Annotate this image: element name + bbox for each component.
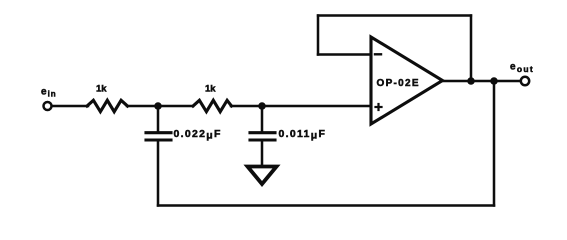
wire R2 to op-amp noninverting input bbox=[231, 105, 371, 108]
svg-text:OP-02E: OP-02E bbox=[377, 78, 420, 89]
wire node A to capacitor C1 bbox=[157, 106, 160, 132]
wire C2 to ground bbox=[261, 140, 264, 166]
svg-text:0.011μF: 0.011μF bbox=[279, 128, 327, 142]
node D junction dot (output tap) bbox=[490, 77, 498, 85]
svg-text:eout: eout bbox=[510, 62, 534, 75]
op-amp U1 bbox=[371, 37, 443, 124]
wire inverting input bbox=[318, 53, 371, 56]
node C junction dot (feedback tap) bbox=[467, 77, 475, 85]
wire output down right side bbox=[493, 81, 496, 206]
wire input to R1 bbox=[52, 105, 88, 108]
wire R1 to R2 bbox=[127, 105, 193, 108]
input terminal e_in bbox=[44, 102, 52, 110]
wire feedback left vertical bbox=[317, 16, 320, 55]
wire feedback right vertical bbox=[470, 16, 473, 82]
resistor R2 bbox=[193, 100, 232, 111]
pin + (noninverting input marker) bbox=[376, 104, 382, 110]
wire feedback top horizontal bbox=[318, 14, 471, 16]
wire node B to capacitor C2 bbox=[261, 106, 264, 132]
svg-text:ein: ein bbox=[41, 87, 57, 99]
node B junction dot bbox=[258, 102, 266, 110]
svg-text:1k: 1k bbox=[205, 84, 216, 95]
pin - (inverting input marker) bbox=[375, 53, 381, 55]
capacitor C2 bbox=[250, 133, 275, 140]
capacitor C1 bbox=[146, 133, 171, 140]
wire op-amp output bbox=[442, 80, 521, 83]
wire bottom feedback horizontal bbox=[158, 204, 494, 207]
output terminal e_out bbox=[521, 77, 529, 85]
node A junction dot bbox=[154, 102, 162, 110]
svg-text:1k: 1k bbox=[96, 84, 107, 95]
resistor R1 bbox=[87, 100, 128, 111]
svg-text:0.022μF: 0.022μF bbox=[174, 128, 222, 142]
wire C1 to bottom feedback bbox=[157, 140, 160, 206]
ground bbox=[248, 167, 277, 185]
